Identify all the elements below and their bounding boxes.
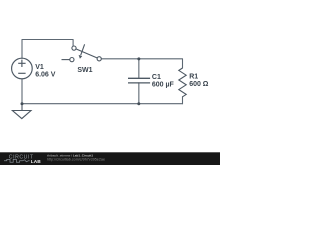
wire top-left: V1 top to switch throw [22, 40, 73, 59]
footer logo waveform [4, 159, 30, 162]
svg-text:600 µF: 600 µF [152, 82, 175, 89]
switch SW1 [62, 44, 102, 61]
label V1 value [35, 64, 56, 79]
footer bar [0, 152, 220, 165]
capacitor C1 [128, 78, 150, 83]
wire resistor bottom stub [182, 97, 184, 104]
wire V1 bottom to rail [21, 79, 23, 104]
svg-text:R1: R1 [189, 73, 198, 80]
switch SW1 arrowhead [79, 55, 83, 59]
label C1 value [152, 74, 175, 89]
label R1 value [189, 73, 209, 88]
svg-text:V1: V1 [35, 64, 44, 71]
node junction V1-bottom rail [21, 102, 24, 105]
wire capacitor top branch [138, 59, 140, 78]
svg-text:SW1: SW1 [77, 67, 92, 74]
svg-text:http://circuitlab.com/c/9h7v39: http://circuitlab.com/c/9h7v395e2ae [47, 158, 105, 162]
node junction capacitor bottom [137, 102, 140, 105]
svg-text:600 Ω: 600 Ω [189, 81, 209, 88]
ground [12, 104, 31, 119]
resistor R1 [179, 68, 186, 97]
voltage source V1 [12, 58, 33, 79]
svg-text:LAB: LAB [31, 159, 41, 165]
svg-text:C1: C1 [152, 74, 161, 81]
svg-text:6.06 V: 6.06 V [35, 72, 56, 79]
node junction capacitor top [137, 57, 140, 60]
wire switch common to right branch [101, 59, 182, 68]
wire capacitor bottom branch [138, 83, 140, 104]
wire bottom rail [22, 103, 183, 105]
